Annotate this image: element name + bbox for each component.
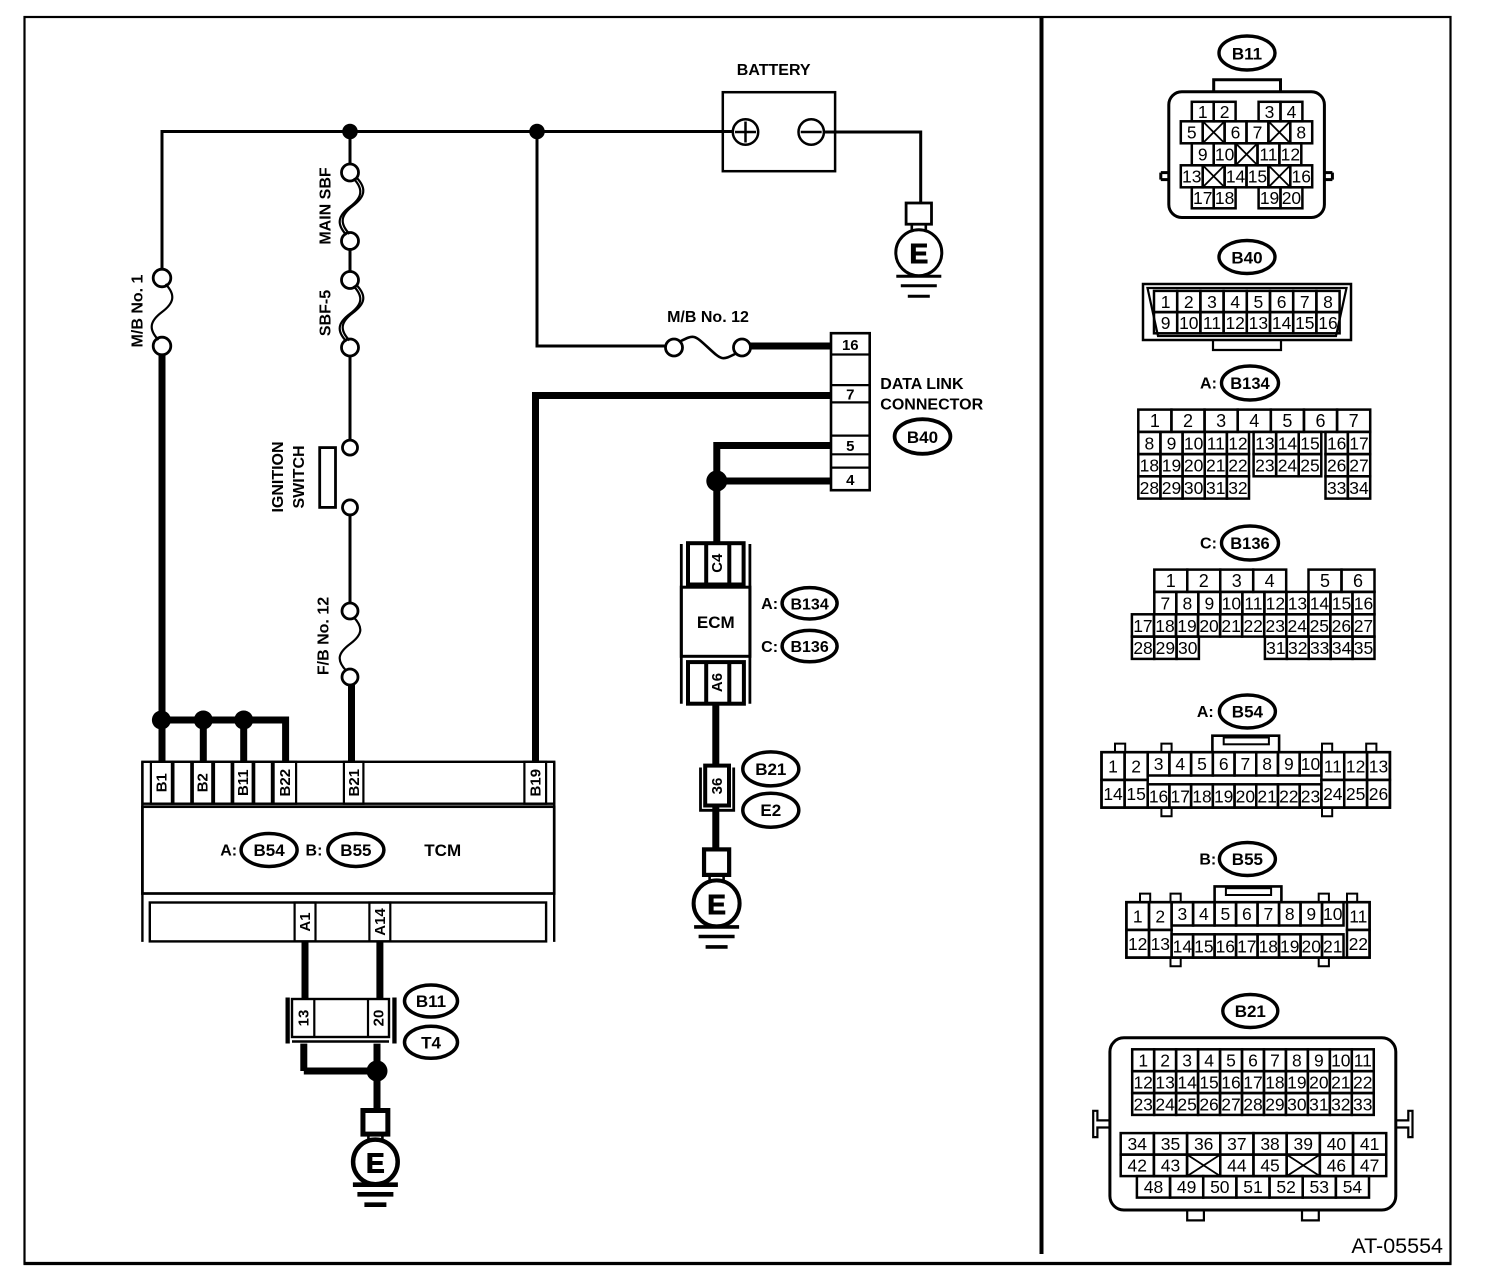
svg-text:46: 46 <box>1327 1156 1346 1176</box>
svg-text:3: 3 <box>1216 411 1226 431</box>
wire: junction down to ECM C4 (thick) <box>713 481 720 544</box>
svg-text:5: 5 <box>846 438 854 455</box>
svg-text:11: 11 <box>1207 433 1225 453</box>
svg-text:15: 15 <box>1248 167 1267 187</box>
svg-text:SWITCH: SWITCH <box>291 445 308 508</box>
svg-text:19: 19 <box>1287 1072 1306 1092</box>
svg-text:15: 15 <box>1300 433 1319 453</box>
svg-text:6: 6 <box>1248 1051 1258 1071</box>
svg-text:12: 12 <box>1281 145 1300 165</box>
wire: M/B No.12 fuse to DLC pin 16 (thick) <box>749 343 832 350</box>
svg-text:40: 40 <box>1327 1134 1347 1154</box>
svg-text:B:: B: <box>306 843 323 860</box>
svg-text:13: 13 <box>1288 593 1307 613</box>
svg-text:13: 13 <box>1182 167 1201 187</box>
svg-text:5: 5 <box>1187 123 1197 143</box>
svg-text:39: 39 <box>1294 1134 1313 1154</box>
svg-text:30: 30 <box>1178 638 1198 658</box>
svg-text:36: 36 <box>709 778 726 795</box>
svg-text:16: 16 <box>1149 786 1168 806</box>
svg-text:4: 4 <box>1175 754 1185 774</box>
svg-text:30: 30 <box>1287 1094 1307 1114</box>
svg-text:1: 1 <box>1166 571 1176 591</box>
wire: to TCM B2 (thick) <box>200 720 207 762</box>
svg-text:3: 3 <box>1265 102 1275 122</box>
svg-text:35: 35 <box>1161 1134 1180 1154</box>
svg-text:30: 30 <box>1184 478 1204 498</box>
svg-text:21: 21 <box>1323 936 1342 956</box>
fuse M/B No. 1 <box>153 269 171 287</box>
battery BATTERY <box>723 92 835 171</box>
svg-text:4: 4 <box>1249 411 1259 431</box>
svg-text:10: 10 <box>1222 593 1242 613</box>
svg-text:12: 12 <box>1266 593 1285 613</box>
svg-text:A1: A1 <box>297 912 314 931</box>
svg-text:10: 10 <box>1331 1051 1351 1071</box>
svg-text:2: 2 <box>1160 1051 1170 1071</box>
ground E (TCM) <box>363 1111 388 1135</box>
svg-text:1: 1 <box>1150 411 1160 431</box>
svg-text:24: 24 <box>1155 1094 1175 1114</box>
svg-text:35: 35 <box>1354 638 1373 658</box>
svg-text:7: 7 <box>1300 292 1310 312</box>
svg-text:ECM: ECM <box>697 613 735 632</box>
connector view B21 bottom tabs <box>1187 1210 1204 1220</box>
svg-text:B11: B11 <box>1232 44 1262 63</box>
svg-text:B21: B21 <box>1235 1002 1266 1021</box>
svg-text:A14: A14 <box>372 908 389 936</box>
svg-text:7: 7 <box>846 387 854 404</box>
svg-text:16: 16 <box>1318 313 1337 333</box>
wire: TCM A14 down (thick) <box>376 941 383 1000</box>
svg-text:A:: A: <box>220 843 237 860</box>
svg-text:2: 2 <box>1131 756 1141 776</box>
svg-text:B40: B40 <box>1231 248 1262 267</box>
svg-text:26: 26 <box>1369 784 1388 804</box>
svg-text:31: 31 <box>1309 1094 1328 1114</box>
wire: bus to MAIN SBF <box>349 132 352 166</box>
svg-text:15: 15 <box>1194 936 1213 956</box>
svg-text:49: 49 <box>1177 1177 1196 1197</box>
svg-text:IGNITION: IGNITION <box>270 441 287 512</box>
svg-text:17: 17 <box>1171 786 1190 806</box>
svg-text:21: 21 <box>1257 786 1276 806</box>
connector ref B21 (oval) <box>743 752 799 786</box>
svg-text:5: 5 <box>1220 904 1230 924</box>
svg-text:17: 17 <box>1349 433 1368 453</box>
svg-text:4: 4 <box>1199 904 1209 924</box>
svg-text:1: 1 <box>1198 102 1208 122</box>
connector view B136 pin grid row2 <box>1154 592 1176 614</box>
svg-text:9: 9 <box>1204 593 1214 613</box>
svg-text:33: 33 <box>1353 1094 1372 1114</box>
svg-text:52: 52 <box>1276 1177 1295 1197</box>
svg-text:28: 28 <box>1140 478 1159 498</box>
wire: pin 20 to ground joint (thick) <box>374 1044 381 1111</box>
svg-text:B21: B21 <box>346 769 363 797</box>
svg-text:12: 12 <box>1128 934 1147 954</box>
svg-text:37: 37 <box>1227 1134 1246 1154</box>
svg-text:3: 3 <box>1232 571 1242 591</box>
svg-text:19: 19 <box>1260 188 1279 208</box>
svg-text:18: 18 <box>1155 616 1174 636</box>
svg-text:5: 5 <box>1197 754 1207 774</box>
svg-text:20: 20 <box>371 1010 388 1027</box>
svg-text:34: 34 <box>1128 1134 1148 1154</box>
svg-text:13: 13 <box>296 1010 313 1027</box>
wire: F/B No.12 to TCM B21 (thick) <box>348 684 355 762</box>
connector view B54 housing <box>1212 736 1279 753</box>
svg-text:24: 24 <box>1288 616 1308 636</box>
svg-text:16: 16 <box>1221 1072 1240 1092</box>
svg-text:20: 20 <box>1309 1072 1329 1092</box>
wire: battery positive feed bus (top horizontal) <box>162 130 734 133</box>
svg-text:9: 9 <box>1167 433 1177 453</box>
connector view B136 pin grid row1 <box>1154 570 1187 592</box>
connector ref E2 (oval) <box>743 793 799 827</box>
node: pins 4/5 junction <box>706 471 727 492</box>
svg-text:15: 15 <box>1332 593 1351 613</box>
svg-text:E: E <box>909 238 928 269</box>
wire: SBF-5 to ignition switch <box>349 355 352 441</box>
svg-text:3: 3 <box>1207 292 1217 312</box>
svg-text:27: 27 <box>1354 616 1373 636</box>
TCM main box <box>142 807 554 894</box>
svg-text:20: 20 <box>1184 456 1204 476</box>
svg-text:B134: B134 <box>1230 375 1270 393</box>
svg-text:C:: C: <box>761 639 778 656</box>
svg-text:20: 20 <box>1199 616 1219 636</box>
svg-text:29: 29 <box>1162 478 1181 498</box>
svg-text:B21: B21 <box>755 760 786 779</box>
svg-text:5: 5 <box>1254 292 1264 312</box>
wire: to TCM B22 (thick) <box>282 717 289 763</box>
svg-text:12: 12 <box>1225 313 1244 333</box>
svg-text:20: 20 <box>1302 936 1322 956</box>
svg-text:B19: B19 <box>528 769 545 797</box>
svg-text:53: 53 <box>1310 1177 1329 1197</box>
svg-text:10: 10 <box>1179 313 1199 333</box>
svg-text:3: 3 <box>1154 754 1164 774</box>
svg-text:A:: A: <box>761 596 778 613</box>
svg-text:25: 25 <box>1346 784 1365 804</box>
connector view B21 label (oval) <box>1223 995 1278 1028</box>
svg-text:54: 54 <box>1343 1177 1363 1197</box>
wire: bus drop to M/B No.12 fuse <box>536 132 539 347</box>
svg-text:13: 13 <box>1151 934 1170 954</box>
TCM connector side rails <box>141 762 143 942</box>
svg-text:27: 27 <box>1349 456 1368 476</box>
svg-text:13: 13 <box>1369 756 1388 776</box>
svg-text:26: 26 <box>1332 616 1351 636</box>
svg-text:31: 31 <box>1206 478 1225 498</box>
svg-text:17: 17 <box>1237 936 1256 956</box>
svg-text:6: 6 <box>1231 123 1241 143</box>
svg-text:8: 8 <box>1323 292 1333 312</box>
svg-text:23: 23 <box>1301 786 1320 806</box>
svg-text:22: 22 <box>1349 934 1368 954</box>
svg-text:18: 18 <box>1215 188 1234 208</box>
wire: DLC pin 5 branch (thick) <box>717 442 832 449</box>
wire: DLC pin 7 to TCM B19 (thick) <box>536 392 833 399</box>
svg-text:E: E <box>366 1147 385 1178</box>
svg-text:19: 19 <box>1214 786 1233 806</box>
svg-text:4: 4 <box>846 472 855 489</box>
connector ref B40 (oval) <box>895 419 951 454</box>
svg-text:18: 18 <box>1265 1072 1284 1092</box>
connector view B11 label (oval) <box>1219 36 1275 70</box>
battery negative terminal <box>799 119 824 144</box>
svg-text:16: 16 <box>1216 936 1235 956</box>
svg-text:2: 2 <box>1199 571 1209 591</box>
svg-text:9: 9 <box>1161 313 1171 333</box>
svg-text:6: 6 <box>1277 292 1287 312</box>
connector joint 36 <box>701 768 734 811</box>
svg-text:19: 19 <box>1280 936 1299 956</box>
svg-text:6: 6 <box>1353 571 1363 591</box>
svg-text:14: 14 <box>1103 784 1123 804</box>
svg-text:B22: B22 <box>277 769 294 797</box>
wire: pin 13 to ground joint (thick) <box>300 1044 307 1071</box>
svg-text:8: 8 <box>1262 754 1272 774</box>
svg-text:5: 5 <box>1320 571 1330 591</box>
svg-text:45: 45 <box>1260 1156 1279 1176</box>
svg-text:19: 19 <box>1177 616 1196 636</box>
connector view B11 housing <box>1214 80 1281 92</box>
svg-text:7: 7 <box>1349 411 1359 431</box>
ECM connector side rails <box>680 544 683 704</box>
svg-text:22: 22 <box>1279 786 1298 806</box>
svg-text:8: 8 <box>1296 123 1306 143</box>
connector view B55 housing <box>1215 886 1282 902</box>
svg-text:11: 11 <box>1203 313 1221 333</box>
svg-text:3: 3 <box>1182 1051 1192 1071</box>
svg-text:T4: T4 <box>421 1033 441 1052</box>
TCM top terminal row <box>142 762 554 804</box>
svg-text:8: 8 <box>1285 904 1295 924</box>
svg-text:5: 5 <box>1282 411 1292 431</box>
svg-text:23: 23 <box>1255 456 1274 476</box>
battery positive terminal <box>733 119 758 144</box>
svg-text:B40: B40 <box>907 428 938 447</box>
svg-text:24: 24 <box>1278 456 1298 476</box>
connector ref T4 (oval) <box>405 1026 458 1058</box>
svg-text:42: 42 <box>1128 1156 1147 1176</box>
svg-text:12: 12 <box>1228 433 1247 453</box>
svg-text:9: 9 <box>1306 904 1316 924</box>
svg-text:A:: A: <box>1197 704 1214 721</box>
svg-text:13: 13 <box>1255 433 1274 453</box>
svg-text:25: 25 <box>1310 616 1329 636</box>
connector view B55 pin grid <box>1126 902 1149 930</box>
connector view B21 pin grid bottom <box>1137 1176 1170 1198</box>
svg-text:A6: A6 <box>709 673 726 692</box>
wire: ECM A6 to joint 36 (thick) <box>712 704 719 766</box>
svg-text:28: 28 <box>1133 638 1152 658</box>
svg-text:B2: B2 <box>195 773 212 792</box>
fuse MAIN SBF <box>342 164 359 181</box>
svg-text:18: 18 <box>1192 786 1211 806</box>
connector view B21 left tab <box>1093 1111 1110 1137</box>
svg-text:DATA LINK: DATA LINK <box>880 376 964 393</box>
connector view B134 pin grid row4 <box>1138 476 1160 498</box>
wire: MAIN SBF to SBF-5 <box>349 248 352 273</box>
connector DATA LINK CONNECTOR B40 (schematic box) <box>831 333 870 490</box>
svg-text:2: 2 <box>1155 906 1165 926</box>
connector view B136 pin grid row3 <box>1132 614 1154 636</box>
svg-text:B136: B136 <box>1230 535 1269 553</box>
ECM <box>681 587 750 656</box>
svg-text:SBF-5: SBF-5 <box>318 290 335 336</box>
svg-text:7: 7 <box>1263 904 1273 924</box>
svg-text:23: 23 <box>1133 1094 1152 1114</box>
svg-text:22: 22 <box>1243 616 1262 636</box>
connector view B54 pin grid <box>1102 752 1125 780</box>
svg-text:8: 8 <box>1182 593 1192 613</box>
svg-text:TCM: TCM <box>424 841 461 860</box>
connector view B134 pin grid rows 2-3 <box>1138 432 1160 454</box>
svg-text:M/B No. 12: M/B No. 12 <box>667 309 749 326</box>
svg-text:36: 36 <box>1194 1134 1213 1154</box>
svg-text:6: 6 <box>1242 904 1252 924</box>
TCM bottom terminal row <box>150 903 546 942</box>
switch IGNITION SWITCH <box>343 440 358 455</box>
wire: to TCM B11 (thick) <box>240 720 247 762</box>
svg-text:BATTERY: BATTERY <box>737 62 811 79</box>
connector view B40 label (oval) <box>1219 241 1275 274</box>
svg-text:12: 12 <box>1346 756 1365 776</box>
svg-text:E2: E2 <box>760 801 781 820</box>
svg-text:21: 21 <box>1331 1072 1350 1092</box>
svg-text:34: 34 <box>1332 638 1352 658</box>
svg-text:16: 16 <box>1327 433 1346 453</box>
svg-text:14: 14 <box>1272 313 1292 333</box>
svg-text:11: 11 <box>1244 593 1262 613</box>
svg-text:11: 11 <box>1324 756 1342 776</box>
svg-text:14: 14 <box>1310 593 1330 613</box>
connector view B11 pin grid <box>1192 102 1214 122</box>
svg-text:50: 50 <box>1210 1177 1230 1197</box>
ground E (battery) <box>906 203 931 224</box>
svg-text:7: 7 <box>1241 754 1251 774</box>
svg-text:4: 4 <box>1265 571 1275 591</box>
svg-text:20: 20 <box>1282 188 1302 208</box>
svg-text:6: 6 <box>1219 754 1229 774</box>
wire: drop to fuse M/B No. 1 <box>161 130 164 270</box>
svg-text:13: 13 <box>1249 313 1268 333</box>
svg-text:10: 10 <box>1184 433 1204 453</box>
svg-text:11: 11 <box>1349 906 1367 926</box>
connector view B21 pin grid middle <box>1121 1133 1154 1155</box>
ground E (ECM) <box>704 849 729 875</box>
svg-text:F/B No. 12: F/B No. 12 <box>316 597 333 675</box>
wire: B1 bus junction dots <box>161 717 285 724</box>
connector view B40 bottom tab <box>1213 340 1281 350</box>
svg-text:2: 2 <box>1183 411 1193 431</box>
svg-text:CONNECTOR: CONNECTOR <box>880 397 983 414</box>
connector view B40 pin grid <box>1154 291 1177 312</box>
svg-text:21: 21 <box>1206 456 1225 476</box>
connector 13/20 (B11/T4) <box>286 998 290 1044</box>
svg-text:2: 2 <box>1184 292 1194 312</box>
svg-text:B55: B55 <box>340 841 371 860</box>
svg-text:20: 20 <box>1236 786 1256 806</box>
svg-text:21: 21 <box>1221 616 1240 636</box>
svg-text:1: 1 <box>1161 292 1171 312</box>
svg-text:33: 33 <box>1327 478 1346 498</box>
node: ground junction <box>367 1061 388 1082</box>
svg-text:24: 24 <box>1323 784 1343 804</box>
svg-text:16: 16 <box>1354 593 1373 613</box>
wire: joint 36 to ground (thick) <box>712 806 719 851</box>
connector view B21 pin grid top <box>1132 1049 1154 1071</box>
svg-text:17: 17 <box>1133 616 1152 636</box>
connector ref B11 (oval) <box>405 985 458 1017</box>
svg-text:5: 5 <box>1226 1051 1236 1071</box>
svg-text:14: 14 <box>1173 936 1193 956</box>
svg-text:15: 15 <box>1126 784 1145 804</box>
svg-text:38: 38 <box>1260 1134 1279 1154</box>
node: junction bus / MAIN SBF <box>342 124 358 140</box>
svg-text:1: 1 <box>1138 1051 1148 1071</box>
svg-text:26: 26 <box>1199 1094 1218 1114</box>
svg-text:9: 9 <box>1314 1051 1324 1071</box>
svg-text:22: 22 <box>1353 1072 1372 1092</box>
connector A6 on ECM <box>688 662 744 704</box>
svg-text:32: 32 <box>1228 478 1247 498</box>
svg-text:43: 43 <box>1161 1156 1180 1176</box>
svg-text:28: 28 <box>1243 1094 1262 1114</box>
svg-text:15: 15 <box>1199 1072 1218 1092</box>
svg-text:7: 7 <box>1270 1051 1280 1071</box>
svg-text:33: 33 <box>1310 638 1329 658</box>
svg-text:B134: B134 <box>790 596 828 613</box>
svg-text:B55: B55 <box>1232 850 1263 869</box>
svg-text:19: 19 <box>1162 456 1181 476</box>
svg-text:B54: B54 <box>254 841 286 860</box>
fuse M/B No. 12 <box>666 339 683 356</box>
svg-text:32: 32 <box>1331 1094 1350 1114</box>
svg-text:11: 11 <box>1354 1051 1372 1071</box>
svg-text:E: E <box>707 889 726 920</box>
svg-text:10: 10 <box>1301 754 1321 774</box>
connector view B21 right tab <box>1396 1111 1413 1137</box>
svg-text:31: 31 <box>1266 638 1285 658</box>
svg-text:27: 27 <box>1221 1094 1240 1114</box>
svg-text:12: 12 <box>1133 1072 1152 1092</box>
svg-text:41: 41 <box>1360 1134 1379 1154</box>
fuse F/B No. 12 <box>342 603 358 619</box>
wire: ignition switch to fuse F/B No. 12 <box>349 514 352 604</box>
svg-text:8: 8 <box>1292 1051 1302 1071</box>
svg-text:18: 18 <box>1259 936 1278 956</box>
svg-text:C4: C4 <box>709 553 726 573</box>
svg-text:1: 1 <box>1108 756 1118 776</box>
svg-text:6: 6 <box>1316 411 1326 431</box>
connector ref B55 (oval) <box>328 834 384 867</box>
svg-text:B11: B11 <box>416 992 446 1011</box>
svg-text:C:: C: <box>1200 536 1217 553</box>
svg-text:29: 29 <box>1265 1094 1284 1114</box>
svg-text:2: 2 <box>1220 102 1230 122</box>
svg-text:14: 14 <box>1278 433 1298 453</box>
node: junction bus / M-B No.12 branch <box>529 124 545 140</box>
connector view B40 housing <box>1143 284 1351 340</box>
svg-text:10: 10 <box>1215 145 1235 165</box>
fuse SBF-5 <box>342 272 359 289</box>
svg-text:B54: B54 <box>1232 703 1264 722</box>
svg-text:22: 22 <box>1228 456 1247 476</box>
